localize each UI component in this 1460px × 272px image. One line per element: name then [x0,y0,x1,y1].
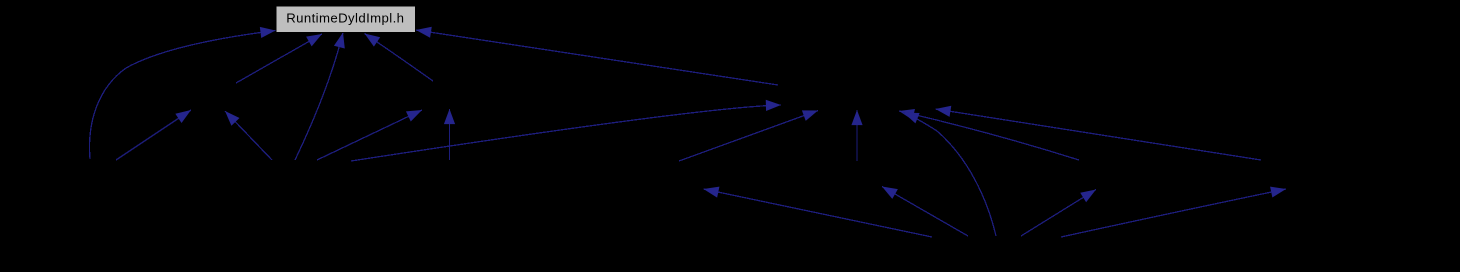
edge F -> C (vertical) [449,109,451,160]
edge W -> S [1021,190,1096,237]
edge E -> C [317,110,422,160]
edge S -> G [899,111,1079,160]
edge B -> RuntimeDyldImpl.h [236,34,322,83]
edge W -> V [1061,189,1286,237]
edge D -> B [116,110,191,160]
svg-text:RuntimeDyldImpl.h: RuntimeDyldImpl.h [286,11,404,26]
edge E -> G (long shallow) [351,105,781,161]
edge T -> G [679,111,818,162]
edge U -> G (vertical) [856,110,858,161]
edge V -> H [936,109,1262,160]
edge W -> T [704,189,933,237]
edge E -> RuntimeDyldImpl.h [295,33,343,161]
edge W -> H (curved) [904,113,997,236]
edge D -> RuntimeDyldImpl.h (curved far-left) [90,31,276,160]
node RuntimeDyldImpl.h (highlighted box) [276,6,416,33]
edge E -> B [225,111,272,160]
edge G -> RuntimeDyldImpl.h (long from right cluster) [416,30,778,85]
edge W -> U [882,187,968,237]
edge C -> RuntimeDyldImpl.h [365,34,434,82]
